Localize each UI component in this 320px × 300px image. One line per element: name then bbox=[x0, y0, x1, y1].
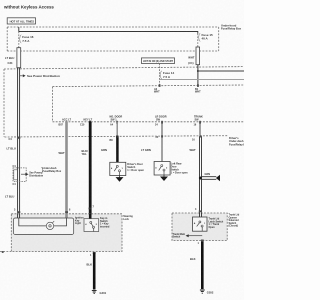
arrow to trunk lid opener solenoid bbox=[216, 175, 220, 182]
wire WHT double line to trunk bbox=[200, 136, 202, 213]
wire branch to trunk lid opener (double line) bbox=[201, 177, 216, 180]
connector tick at trunk box bbox=[199, 210, 202, 212]
pin tick ACC LT output bbox=[66, 121, 68, 124]
fuse 14 label bbox=[160, 71, 175, 79]
wire stub inside trunk box bbox=[200, 213, 202, 217]
label box HOT IN ON (II) AND START bbox=[142, 58, 175, 64]
trunk lid opener switch dashed box bbox=[172, 213, 227, 241]
ignition key light housing (rounded box) bbox=[13, 218, 73, 234]
connector tick BLK/YEL at key box bbox=[89, 208, 92, 210]
node: feed line right bbox=[197, 70, 199, 72]
fuse R15 cartridge bbox=[196, 47, 200, 65]
node: corner blob bbox=[2, 251, 4, 253]
wire WHT from fuse 15 bbox=[197, 65, 199, 86]
connector tick trunk wire bbox=[200, 135, 202, 137]
arrow to trunk main switch bbox=[173, 233, 203, 239]
wire: page-edge dashed continuation bbox=[0, 251, 11, 253]
fuse F15 internal dashed wire bbox=[197, 34, 199, 48]
MICU inner dashed box bbox=[53, 85, 245, 122]
wire: battery bus bbox=[19, 27, 198, 34]
pass-through connector dashed box on LT BLU wire bbox=[13, 168, 26, 182]
wire WHT gray (ACC LT) bbox=[65, 122, 68, 218]
wire gray to right edge bbox=[160, 79, 244, 81]
fuse F16 internal dashed wire bbox=[18, 32, 20, 48]
scan noise overlay bbox=[0, 0, 1, 1]
wire thin to driver's door switch bbox=[116, 122, 118, 137]
trunk lid latch switch bbox=[193, 217, 208, 231]
ignition key cylinder dashed box bbox=[11, 214, 122, 252]
under-dash fuse/relay box (big dashed outline) bbox=[4, 67, 244, 137]
arrow See Power Distribution (top) bbox=[20, 74, 60, 78]
key-in switch (ignition key switch) bbox=[84, 219, 99, 232]
connector tick below key box bbox=[93, 252, 96, 254]
ground G401 bbox=[92, 290, 97, 293]
fuse F14 internal dashed wire bbox=[159, 64, 161, 86]
fuse R16 cartridge bbox=[17, 48, 21, 68]
pin tick fuse14 input bbox=[159, 84, 161, 87]
connector tick LT BLU at key box bbox=[18, 211, 21, 213]
connector tick below trunk box bbox=[201, 240, 204, 242]
connector tick WHT at key box bbox=[65, 211, 68, 213]
wire BLK to G401 bbox=[93, 253, 96, 290]
under-hood fuse/relay box (dashed outline) bbox=[7, 27, 219, 51]
internal bar bbox=[14, 170, 18, 180]
ground G552 bbox=[200, 290, 205, 293]
left rear door switch bbox=[154, 162, 170, 176]
label under-dash fuse/relay box (brace) bbox=[41, 167, 62, 174]
wire stubs inside key box bbox=[18, 214, 91, 219]
pin tick KEY LT output bbox=[89, 121, 91, 124]
fuse 16 label bbox=[19, 35, 34, 43]
label box HOT AT ALL TIMES bbox=[7, 18, 35, 24]
wire BLK/YEL thick (KEY LT) bbox=[89, 122, 92, 219]
arrow See Power Distribution (lower) bbox=[21, 172, 44, 178]
ground triangle (left rear door switch case) bbox=[161, 175, 167, 181]
connector tick on LT BLU wire at box edge bbox=[18, 137, 21, 139]
wire GRN thick to driver's door switch bbox=[116, 136, 119, 162]
pin tick door sw output bbox=[116, 121, 118, 124]
wire thin trunk sw upper bbox=[199, 122, 201, 137]
pin tick fuse15 input bbox=[197, 84, 199, 87]
node: trunk wire junction bbox=[199, 177, 202, 180]
wire to right edge bbox=[198, 70, 244, 72]
bulb: ignition key light bbox=[46, 221, 54, 229]
wire LT BLU vertical (double line) bbox=[18, 68, 20, 214]
connector tick door sw wire bbox=[116, 136, 119, 138]
wire LT GRN to left rear door switch bbox=[161, 122, 163, 162]
pin tick LR door output bbox=[161, 121, 163, 124]
connector tick LR door wire bbox=[161, 135, 163, 137]
pin tick trunk sw output bbox=[199, 121, 201, 124]
wire inside key light bbox=[19, 218, 47, 226]
wire BLK to G552 bbox=[201, 241, 204, 289]
driver's door switch bbox=[110, 162, 126, 175]
ground triangle (driver's door switch case) bbox=[116, 176, 122, 182]
fuse 15 label bbox=[198, 33, 213, 42]
